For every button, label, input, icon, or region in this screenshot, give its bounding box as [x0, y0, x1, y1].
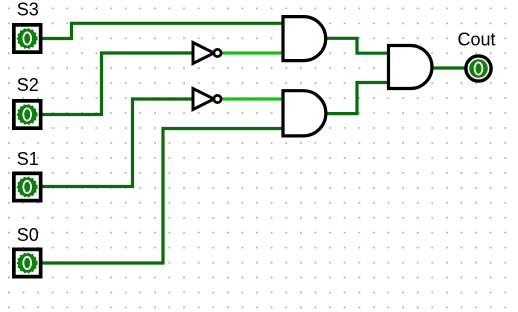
input pin S1: [14, 173, 41, 200]
wire AND2 output to AND3 bottom input: [324, 83, 389, 114]
wire S1 pin to NOT2 input: [41, 99, 194, 187]
wire NOT1 output to AND1 bottom input: [220, 51, 285, 54]
wire S2 pin to NOT1 input: [41, 53, 194, 115]
inverter NOT2: [193, 89, 221, 110]
inverter NOT1: [193, 43, 221, 64]
wire AND3 output to Cout pin: [431, 66, 466, 69]
AND gate U3 (output stage): [389, 46, 433, 89]
svg-text:S2: S2: [17, 75, 39, 95]
AND gate U2 (bottom): [283, 91, 326, 136]
wire NOT2 output to AND2 top input: [220, 97, 285, 100]
svg-text:Cout: Cout: [458, 30, 496, 50]
input pin S3: [14, 25, 41, 52]
output pin Cout: [465, 55, 491, 81]
svg-text:S1: S1: [17, 149, 39, 169]
svg-text:S3: S3: [17, 0, 39, 20]
wire AND1 output to AND3 top input: [324, 38, 389, 53]
svg-text:S0: S0: [17, 225, 39, 245]
wire S0 pin to AND2 bottom input: [42, 129, 284, 264]
wire S3 pin to AND1 top input: [41, 23, 284, 38]
input pin S2: [14, 101, 41, 128]
AND gate U1 (top): [283, 17, 326, 61]
input pin S0: [14, 249, 41, 276]
